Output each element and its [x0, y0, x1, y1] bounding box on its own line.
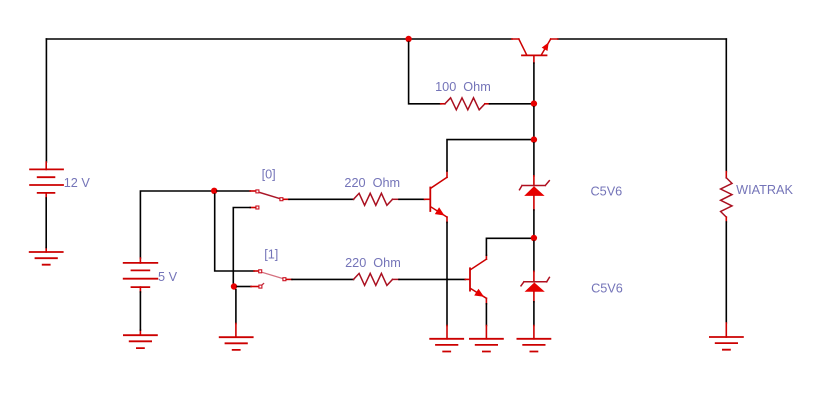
wire node D2 to zener Z1 [533, 143, 535, 176]
wire R2 to Q1 base [393, 198, 400, 200]
svg-text:220 Ohm: 220 Ohm [344, 176, 400, 190]
wire 5V battery pins [139, 258, 141, 335]
svg-text:[1]: [1] [264, 248, 278, 262]
wire Q1 collector to node D [447, 140, 534, 171]
switch S1 arm tick [261, 284, 263, 286]
svg-text:C5V6: C5V6 [591, 184, 623, 198]
transistor Q1 base bar [429, 188, 431, 212]
ground GND1 [30, 252, 63, 265]
svg-text:C5V6: C5V6 [591, 282, 623, 296]
wire R3 to Q2 base [393, 278, 400, 280]
transistor Q3 pins on rail [512, 38, 558, 40]
wire Q1 emitter to ground [446, 222, 448, 325]
svg-text:220 Ohm: 220 Ohm [345, 256, 401, 270]
zener Z2 triangle [525, 283, 545, 292]
battery V2 5V [124, 263, 158, 287]
svg-text:12 V: 12 V [64, 176, 91, 190]
ground GND2 [124, 335, 157, 348]
wire node D1 to node D2 [533, 107, 535, 137]
wire Q2 collector to node E [486, 238, 534, 255]
ground GND6 [517, 339, 550, 352]
wire Q3 base to node D1 [533, 63, 535, 104]
wire S0 lower contact to node B [250, 207, 255, 209]
wire 5V battery to ground [139, 292, 141, 330]
transistor Q2 collector [470, 259, 486, 270]
transistor Q2 emitter arrow [474, 289, 484, 297]
resistor R4 WIATRAK [721, 178, 732, 217]
ground GND4 [430, 339, 463, 352]
node E junction dot [531, 235, 537, 241]
node D1 junction dot [531, 100, 537, 106]
ground GND5 [470, 339, 503, 352]
zener Z2 cathode bar [521, 277, 549, 285]
wire S1 pole to R3 [286, 278, 292, 280]
wire node A to switch S0 [217, 190, 250, 192]
wire node B to switch S1 lower contact [237, 286, 251, 288]
node B junction dot [231, 283, 237, 289]
switch S1 contact squares [259, 270, 286, 288]
wire right drop to WIATRAK [725, 39, 727, 172]
wire node A down leg to switch S1 [215, 194, 254, 271]
wire node C down to 100 Ohm [409, 42, 441, 104]
wire S0 pole to R2 [283, 198, 289, 200]
transistor Q1 emitter arrow [435, 207, 445, 215]
wire 12V battery drop [45, 39, 47, 162]
wire 12V battery pins [45, 162, 47, 252]
wire Q2 emitter to ground [485, 304, 487, 326]
transistor Q3 emitter arrow [542, 42, 549, 51]
wire node B to ground [235, 290, 237, 324]
resistor R1 100 Ohm [445, 98, 485, 110]
transistor Q3 base bar [522, 54, 547, 56]
wire node E to zener Z2 [533, 241, 535, 271]
transistor Q3 base stub [533, 55, 535, 63]
wire 12V battery to ground [45, 198, 47, 248]
switch S0 contact squares [256, 190, 283, 209]
svg-text:WIATRAK: WIATRAK [736, 183, 793, 197]
wire R1 to node D1 [485, 103, 490, 105]
node A junction dot [211, 188, 217, 194]
ground GND3 [220, 337, 253, 350]
transistor Q1 collector [431, 177, 447, 188]
switch S0 arm [259, 192, 280, 198]
node C junction dot (top rail) [405, 36, 411, 42]
wire top rail +12V [46, 38, 726, 40]
transistor Q3 emitter [542, 39, 551, 55]
switch S1 arm [262, 272, 283, 278]
resistor R3 220 Ohm [354, 273, 393, 285]
node D2 junction dot [531, 136, 537, 142]
zener Z1 triangle [524, 186, 544, 196]
transistor Q1 emitter [431, 207, 447, 217]
svg-text:100 Ohm: 100 Ohm [435, 80, 491, 94]
wire Z2 to ground [533, 292, 535, 302]
transistor Q3 collector [519, 39, 527, 55]
resistor R2 220 Ohm [354, 193, 393, 205]
wire WIATRAK to ground [725, 217, 727, 222]
transistor Q2 emitter [470, 288, 486, 298]
battery V1 12V [30, 169, 63, 193]
ground GND7 [710, 337, 743, 350]
wire Z1 to node E [533, 196, 535, 210]
wire 5V battery top [140, 191, 211, 258]
transistor Q2 base bar [469, 268, 471, 290]
svg-text:[0]: [0] [262, 168, 276, 182]
zener Z1 cathode bar [520, 181, 550, 190]
svg-text:5 V: 5 V [158, 270, 178, 284]
